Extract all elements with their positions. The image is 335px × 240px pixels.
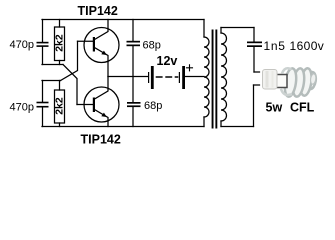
svg-text:1n5: 1n5 [264, 39, 286, 53]
svg-text:1600v: 1600v [290, 39, 325, 53]
svg-text:5w: 5w [266, 101, 283, 115]
svg-text:12v: 12v [157, 54, 178, 68]
svg-text:CFL: CFL [290, 101, 315, 115]
svg-text:470p: 470p [10, 39, 34, 51]
svg-text:2k2: 2k2 [54, 97, 66, 115]
svg-text:470p: 470p [10, 101, 34, 113]
svg-text:TIP142: TIP142 [81, 133, 121, 147]
svg-text:68p: 68p [143, 40, 161, 52]
svg-text:68p: 68p [144, 100, 162, 112]
svg-text:2k2: 2k2 [54, 34, 66, 52]
svg-text:TIP142: TIP142 [78, 4, 118, 18]
